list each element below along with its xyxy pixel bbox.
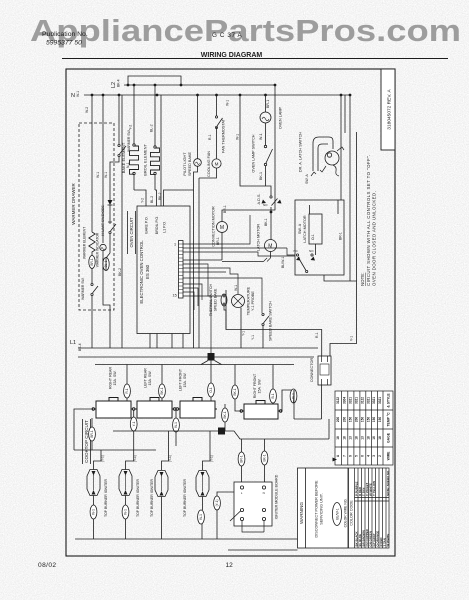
- svg-text:DIODE: DIODE: [101, 205, 105, 216]
- svg-text:BK-2: BK-2: [158, 192, 162, 200]
- svg-text:18: 18: [366, 436, 370, 440]
- svg-text:WARMER SW.: WARMER SW.: [81, 277, 85, 300]
- wire bottom return: [75, 520, 310, 539]
- svg-text:L1 P.O.: L1 P.O.: [163, 221, 167, 233]
- svg-text:BR-1: BR-1: [216, 237, 220, 245]
- wire top feeder: [128, 76, 181, 85]
- svg-text:TEMP °C: TEMP °C: [387, 412, 391, 427]
- resistor warmer element: [83, 227, 96, 270]
- svg-text:FAN THERMOSTAT: FAN THERMOSTAT: [222, 118, 226, 153]
- svg-text:WARMER SW.: WARMER SW.: [127, 129, 131, 152]
- svg-text:M: M: [215, 161, 219, 166]
- fan thermostat: [215, 95, 229, 153]
- svg-text:OVEN DOOR CLOSED AND UNLOCKED.: OVEN DOOR CLOSED AND UNLOCKED.: [372, 191, 377, 286]
- svg-text:15A. SW.: 15A. SW.: [113, 371, 117, 386]
- wire drops to switches with oval labels: [124, 365, 131, 402]
- wire warmer feeds: [91, 95, 93, 232]
- svg-text:200: 200: [355, 417, 359, 423]
- outer border: [66, 69, 395, 556]
- motor convection: [212, 85, 276, 260]
- wire BK-2 drop: [118, 95, 122, 348]
- switch left rear surface: [135, 368, 176, 418]
- svg-text:2: 2: [378, 455, 382, 457]
- svg-text:NO: NO: [263, 203, 268, 207]
- svg-text:SPEED BAKE: SPEED BAKE: [214, 288, 218, 311]
- svg-text:BAKE P.O.: BAKE P.O.: [145, 216, 149, 233]
- svg-text:M: M: [268, 244, 272, 250]
- svg-text:TOP BURNER IGNITER: TOP BURNER IGNITER: [183, 479, 187, 517]
- switch A.D.S.: [257, 190, 282, 213]
- svg-text:1: 1: [174, 243, 176, 247]
- oval BR-1 module feed: [238, 439, 245, 482]
- svg-text:W-1: W-1: [234, 285, 238, 291]
- wire N drop to latch switch: [340, 95, 342, 200]
- warmer drawer dashed box: [79, 123, 114, 310]
- svg-text:3321: 3321: [372, 397, 376, 404]
- svg-text:13: 13: [349, 436, 353, 440]
- svg-text:TOP BURNER IGNITER: TOP BURNER IGNITER: [136, 479, 140, 517]
- wire lamp switch to ADS: [266, 186, 272, 190]
- svg-text:W-1: W-1: [259, 133, 263, 140]
- svg-text:B-1: B-1: [271, 393, 275, 398]
- svg-text:O-1: O-1: [311, 234, 315, 240]
- wire pin fanout upper: [183, 215, 295, 354]
- svg-text:(Y-1): (Y-1): [210, 455, 214, 462]
- pilot light speed bake: [164, 95, 202, 348]
- resistor bake element: [121, 85, 139, 190]
- svg-text:4: 4: [366, 455, 370, 457]
- svg-text:(Y-1): (Y-1): [133, 455, 137, 462]
- svg-text:WARMER DRAWER: WARMER DRAWER: [71, 183, 76, 225]
- wire switch returns: [74, 409, 95, 450]
- svg-text:RIGHT REAR: RIGHT REAR: [109, 367, 113, 390]
- svg-text:N: N: [71, 93, 75, 99]
- svg-text:M: M: [220, 225, 224, 231]
- svg-text:IGNITER MODULE BOARD: IGNITER MODULE BOARD: [275, 474, 279, 519]
- svg-text:15A. SW.: 15A. SW.: [258, 379, 262, 394]
- svg-text:OVEN LAMP SWITCH: OVEN LAMP SWITCH: [252, 134, 256, 172]
- wire N bus: [84, 94, 350, 96]
- diode CR1: [101, 200, 113, 220]
- svg-text:3321: 3321: [366, 397, 370, 404]
- svg-text:CIRCUIT SHOWN WITH ALL CONTROL: CIRCUIT SHOWN WITH ALL CONTROLS SET TO "…: [366, 154, 371, 286]
- svg-text:NOTE:: NOTE:: [360, 273, 365, 286]
- warmer bake switch: [96, 129, 131, 200]
- svg-text:CONVECTION MOTOR: CONVECTION MOTOR: [212, 206, 216, 247]
- svg-text:TEMPERATURE: TEMPERATURE: [247, 286, 251, 315]
- svg-text:WARMER ELEMENT: WARMER ELEMENT: [83, 227, 87, 259]
- svg-text:AppliancePartsPros.com: AppliancePartsPros.com: [30, 14, 461, 49]
- svg-text:150: 150: [366, 417, 370, 423]
- node N: [71, 91, 80, 99]
- svg-text:LATCH MOTOR: LATCH MOTOR: [257, 224, 261, 252]
- wire V-1 right side drop: [226, 95, 357, 356]
- svg-text:TOP BURNER IGNITER: TOP BURNER IGNITER: [104, 479, 108, 517]
- svg-text:W-1: W-1: [76, 91, 80, 97]
- svg-text:08/02: 08/02: [38, 562, 57, 569]
- svg-text:BR-1: BR-1: [240, 455, 244, 462]
- svg-text:BR-1: BR-1: [339, 232, 343, 240]
- svg-text:Publication No.: Publication No.: [42, 31, 88, 38]
- svg-text:WARNING: WARNING: [299, 502, 304, 524]
- junction block 2: [218, 428, 225, 435]
- arrow marker: [333, 458, 338, 462]
- svg-text:BR-1: BR-1: [90, 258, 94, 265]
- svg-text:W-1: W-1: [104, 172, 108, 178]
- thermostat warmer: [81, 270, 98, 348]
- svg-text:W-1: W-1: [124, 509, 128, 515]
- wire L1 bus C: [95, 364, 294, 366]
- svg-text:COOKTOP CIRCUIT: COOKTOP CIRCUIT: [84, 420, 89, 463]
- svg-text:V-1: V-1: [350, 336, 354, 341]
- svg-text:5: 5: [355, 455, 359, 457]
- svg-text:3122: 3122: [336, 397, 340, 404]
- svg-text:150: 150: [361, 417, 365, 423]
- svg-text:Y-2: Y-2: [141, 198, 145, 203]
- svg-text:NOTE: SUFFIX NO.: NOTE: SUFFIX NO.: [386, 470, 390, 496]
- color code table: [349, 468, 390, 548]
- svg-text:(Y-1): (Y-1): [101, 455, 105, 462]
- node L2: [111, 79, 121, 88]
- svg-text:13: 13: [361, 436, 365, 440]
- oval BL-1: [103, 258, 109, 271]
- svg-text:150: 150: [349, 417, 353, 423]
- svg-text:BL-2: BL-2: [150, 124, 154, 132]
- svg-text:DISCONNECT POWER BEFORE: DISCONNECT POWER BEFORE: [315, 480, 319, 538]
- svg-text:3: 3: [372, 455, 376, 457]
- oval BR-1: [89, 256, 95, 269]
- svg-text:G C 37 A: G C 37 A: [212, 32, 243, 39]
- svg-text:A.D.S.: A.D.S.: [257, 194, 261, 205]
- wire latch box out: [324, 275, 357, 281]
- svg-text:150: 150: [378, 417, 382, 423]
- svg-text:BL/W-1: BL/W-1: [281, 257, 285, 268]
- switch speed bake: [251, 301, 273, 348]
- EOC box electronic oven control ES 360: [137, 192, 190, 348]
- svg-text:LEFT FRONT: LEFT FRONT: [179, 368, 183, 391]
- wire connector bottom loop: [294, 385, 330, 439]
- svg-text:WIRING DIAGRAM: WIRING DIAGRAM: [201, 52, 263, 59]
- svg-text:BK-2: BK-2: [118, 268, 122, 276]
- switch right front surface: [240, 373, 282, 419]
- svg-text:BK-1: BK-1: [263, 454, 267, 461]
- svg-text:BK-1: BK-1: [233, 388, 237, 395]
- wire L1 bus A: [78, 347, 318, 349]
- svg-text:18: 18: [336, 436, 340, 440]
- igniter 4: [183, 431, 214, 539]
- svg-text:BR-1: BR-1: [223, 205, 227, 213]
- svg-text:SPEED BAKE: SPEED BAKE: [188, 152, 192, 177]
- svg-text:R-1: R-1: [125, 388, 129, 393]
- svg-text:BROIL ELEMENT: BROIL ELEMENT: [143, 144, 148, 176]
- svg-text:Y YELLOW: Y YELLOW: [372, 481, 376, 496]
- svg-text:SPEED BAKE SWITCH: SPEED BAKE SWITCH: [269, 301, 273, 341]
- svg-text:SERVICING UNIT.: SERVICING UNIT.: [320, 493, 324, 524]
- svg-text:150: 150: [372, 417, 376, 423]
- svg-text:BL/W-1: BL/W-1: [336, 508, 340, 519]
- hi limit switch: [101, 216, 116, 253]
- junction dots: [91, 84, 352, 97]
- svg-text:18: 18: [342, 436, 346, 440]
- svg-text:W-2: W-2: [85, 107, 89, 113]
- svg-text:W-1: W-1: [236, 134, 240, 140]
- svg-text:(Y-1): (Y-1): [215, 500, 219, 507]
- svg-text:LEFT REAR: LEFT REAR: [144, 368, 148, 388]
- switch right rear surface: [92, 367, 135, 418]
- svg-text:3321: 3321: [355, 397, 359, 404]
- svg-text:18: 18: [355, 436, 359, 440]
- svg-text:W WHITE: W WHITE: [386, 534, 390, 547]
- svg-text:BAKE ELEMENT: BAKE ELEMENT: [121, 142, 126, 173]
- svg-text:SW. A: SW. A: [305, 174, 309, 184]
- motor latch: [222, 212, 277, 262]
- svg-text:Y-1 PROBE: Y-1 PROBE: [251, 291, 255, 311]
- node L1: [70, 340, 82, 351]
- box igniter module board: [214, 474, 279, 539]
- svg-text:Y-2: Y-2: [129, 125, 133, 130]
- svg-text:3304: 3304: [342, 397, 346, 404]
- svg-text:Y-1: Y-1: [251, 335, 255, 340]
- svg-text:BROIL P.O.: BROIL P.O.: [155, 216, 159, 234]
- svg-text:N: N: [263, 491, 265, 495]
- svg-text:COOLING FAN: COOLING FAN: [207, 151, 211, 177]
- svg-text:BK-4: BK-4: [117, 79, 121, 87]
- rev box 318045072 REV. A: [381, 69, 395, 150]
- wire element to EOC: [134, 190, 146, 206]
- switch oven lamp switch: [252, 123, 273, 186]
- igniter 3: [150, 431, 172, 539]
- motor cooling fan: [199, 127, 221, 178]
- connector: [310, 356, 331, 385]
- svg-text:3321: 3321: [378, 397, 382, 404]
- svg-text:WARMER INDICATOR: WARMER INDICATOR: [96, 232, 100, 267]
- wire L2 bus: [124, 84, 275, 86]
- svg-text:COLOR WIRE NO.: COLOR WIRE NO.: [343, 499, 347, 528]
- svg-text:LATCH MOTOR: LATCH MOTOR: [303, 215, 307, 243]
- svg-text:R-1: R-1: [208, 134, 212, 140]
- svg-text:OVEN LAMP: OVEN LAMP: [279, 106, 283, 129]
- svg-text:318045072 REV. A: 318045072 REV. A: [387, 89, 393, 130]
- svg-text:R-1: R-1: [315, 332, 319, 338]
- svg-text:6: 6: [361, 455, 365, 457]
- svg-text:SW. A: SW. A: [298, 223, 302, 234]
- svg-text:12: 12: [226, 562, 234, 569]
- svg-text:& STYLE: & STYLE: [387, 393, 391, 408]
- svg-text:3321: 3321: [349, 397, 353, 404]
- svg-text:Y-1: Y-1: [132, 421, 136, 426]
- svg-text:COLOR CODE: COLOR CODE: [349, 500, 353, 526]
- cooktop circuit label: [83, 419, 91, 464]
- svg-text:W-1: W-1: [199, 514, 203, 520]
- resistor broil element: [143, 85, 160, 190]
- svg-text:RIGHT FRONT: RIGHT FRONT: [253, 373, 257, 398]
- svg-text:HI LIMIT SW.: HI LIMIT SW.: [101, 216, 105, 236]
- svg-text:3122: 3122: [361, 397, 365, 404]
- wire gauge table: [335, 391, 393, 465]
- svg-text:9: 9: [349, 455, 353, 457]
- svg-text:NO: NO: [309, 249, 314, 253]
- svg-text:GAGE: GAGE: [387, 432, 391, 443]
- lamp oven lamp: [260, 95, 283, 129]
- svg-text:BK-1: BK-1: [223, 411, 227, 418]
- svg-text:L1: L1: [70, 340, 76, 346]
- svg-text:16: 16: [372, 436, 376, 440]
- wire BK-2 to EOC: [160, 95, 162, 206]
- svg-text:ES 360: ES 360: [145, 264, 150, 279]
- svg-text:BK-1: BK-1: [259, 172, 263, 180]
- svg-text:BK-4: BK-4: [78, 343, 82, 351]
- igniter 2: [119, 450, 140, 539]
- svg-text:200: 200: [342, 417, 346, 423]
- door latch mechanism: [299, 132, 345, 184]
- svg-text:W-1: W-1: [226, 100, 230, 106]
- svg-text:5995377 50: 5995377 50: [46, 40, 82, 47]
- warning box: [298, 468, 349, 548]
- svg-text:BR-1: BR-1: [90, 430, 94, 437]
- svg-text:W-1: W-1: [174, 422, 178, 428]
- switch left front surface: [176, 368, 217, 418]
- svg-text:BK-1: BK-1: [160, 387, 164, 394]
- note text: [360, 154, 377, 286]
- svg-text:W-1: W-1: [96, 172, 100, 178]
- svg-text:W-1: W-1: [92, 509, 96, 515]
- svg-text:BL-2: BL-2: [150, 196, 154, 203]
- svg-text:BR-1: BR-1: [266, 100, 270, 108]
- svg-text:O-1: O-1: [209, 387, 213, 393]
- svg-text:15: 15: [173, 294, 177, 298]
- svg-text:THERMAL SWITCH: THERMAL SWITCH: [209, 283, 213, 316]
- svg-text:DR. A. LATCH SWITCH: DR. A. LATCH SWITCH: [299, 132, 303, 172]
- junction block: [208, 353, 215, 361]
- connector J1 pin strip: [173, 241, 184, 299]
- svg-text:TOP BURNER IGNITER: TOP BURNER IGNITER: [150, 479, 154, 517]
- svg-text:7: 7: [342, 455, 346, 457]
- svg-text:PILOT LIGHT: PILOT LIGHT: [183, 152, 187, 176]
- svg-text:BK-1: BK-1: [264, 218, 268, 226]
- thermal switch speed bake: [208, 283, 227, 329]
- igniter 1: [87, 450, 108, 539]
- temperature probe: [232, 285, 256, 348]
- svg-text:200: 200: [336, 417, 340, 423]
- svg-text:15A. SW.: 15A. SW.: [183, 373, 187, 388]
- wire collector row: [113, 430, 218, 432]
- svg-text:ELECTRONIC OVEN CONTROL: ELECTRONIC OVEN CONTROL: [139, 240, 144, 304]
- svg-text:OVEN CIRCUIT: OVEN CIRCUIT: [129, 217, 134, 247]
- svg-text:(Y-1): (Y-1): [168, 455, 172, 462]
- svg-text:CONNECTOR: CONNECTOR: [310, 358, 314, 383]
- oven circuit label: [128, 211, 136, 254]
- svg-text:18: 18: [378, 436, 382, 440]
- oval BK-1 module feed: [261, 439, 268, 482]
- lamp warmer indicator: [96, 232, 107, 270]
- svg-text:15A. SW.: 15A. SW.: [148, 371, 152, 386]
- wire L1 bus B: [78, 356, 314, 358]
- wire warmer returns: [102, 258, 104, 270]
- box SW. A latch motor: [294, 200, 345, 275]
- svg-text:WIRE: WIRE: [387, 451, 391, 461]
- svg-text:Y-1: Y-1: [242, 331, 246, 336]
